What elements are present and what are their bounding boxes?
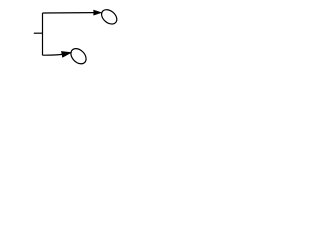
node state top ellipse: [99, 7, 120, 27]
wire bottom branch: [43, 53, 63, 56]
wire input stub: [34, 32, 43, 34]
arrowhead top: [94, 10, 102, 15]
arrowhead bottom: [61, 51, 71, 57]
wire vertical trunk: [42, 13, 44, 55]
wire top branch: [43, 12, 94, 14]
node state bottom ellipse: [68, 46, 89, 67]
